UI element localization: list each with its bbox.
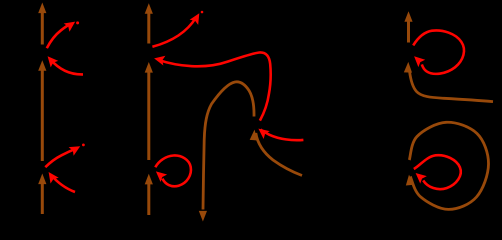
panel1 axis arrow middle	[41, 69, 44, 161]
panel2 axis arrow middle	[147, 71, 150, 160]
panel4 red homoclinic loop	[411, 30, 464, 73]
panel5 red inner loop	[412, 155, 460, 189]
panel5 brown limit-cycle oval with up arrow at left	[405, 122, 489, 209]
panel4 axis arrow top	[407, 20, 410, 43]
panel2 axis arrow top	[147, 12, 150, 44]
panel2 node D red homoclinic loop	[153, 155, 191, 186]
panel1 node A outgoing red trajectory	[47, 18, 79, 49]
panel3 red incoming trajectory from right	[255, 125, 303, 141]
panel1 axis arrow top	[41, 11, 44, 45]
panel1 axis arrow bottom	[41, 183, 44, 214]
panel2 node C incoming red S-trajectory from saddle region	[153, 52, 271, 120]
panel3 brown unstable-manifold arc with down arrow	[199, 82, 254, 222]
panel1 node B outgoing red trajectory	[45, 142, 85, 167]
panel3 brown incoming trajectory with up arrow at saddle node	[250, 129, 302, 175]
panel2 axis arrow bottom	[147, 183, 150, 215]
panel2 node C outgoing red trajectory	[152, 11, 203, 47]
panel4 brown incoming trajectory with up arrow below node	[404, 62, 493, 102]
panel1 node A incoming red trajectory	[44, 53, 83, 75]
panel1 node B incoming red trajectory	[45, 169, 75, 192]
